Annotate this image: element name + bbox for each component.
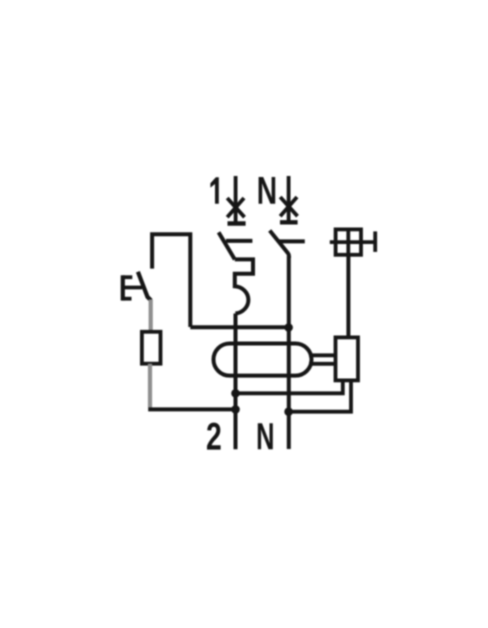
test button actuator <box>123 275 142 300</box>
label N (top) <box>259 177 276 204</box>
CT secondary connector <box>309 353 336 357</box>
junction dot: resistor return on pole 1 <box>231 405 240 414</box>
label N (bottom) <box>258 423 273 449</box>
label 2 (bottom) <box>207 423 221 450</box>
test button moving blade <box>138 272 151 301</box>
junction dot: test wire to pole N <box>284 323 293 332</box>
test circuit return wire to pole 1 <box>148 407 235 411</box>
breaker contact blade pole N <box>270 231 289 259</box>
terminal 1 (top, pole 1) <box>227 176 245 224</box>
pole N lower wire <box>287 256 291 449</box>
thermal-magnetic trip element pole 1 <box>235 259 253 313</box>
fixed contact bar pole 1 <box>226 239 252 243</box>
junction dot: relay lead 1 on pole 1 <box>231 389 240 398</box>
position indicator square <box>330 229 375 254</box>
resistor top lead (gray) <box>149 300 153 333</box>
relay bottom lead 2 to pole N <box>289 380 351 412</box>
fixed contact bar pole N <box>278 239 305 243</box>
breaker contact blade pole 1 <box>219 232 235 259</box>
resistor bottom lead (gray) <box>148 364 152 408</box>
test button fixed-contact wire <box>152 234 190 327</box>
toroid current transformer <box>214 344 312 376</box>
terminal N (top, pole N) <box>280 176 298 222</box>
trip relay <box>336 337 359 380</box>
junction dot: relay lead 2 on pole N <box>284 407 293 416</box>
label 1 <box>210 177 218 204</box>
resistor R <box>142 332 161 364</box>
test circuit wire to pole N <box>190 325 288 329</box>
pole 1 lower wire <box>234 314 238 450</box>
relay bottom lead 1 to pole 1 <box>236 380 343 393</box>
relay stem to indicator <box>346 255 350 338</box>
